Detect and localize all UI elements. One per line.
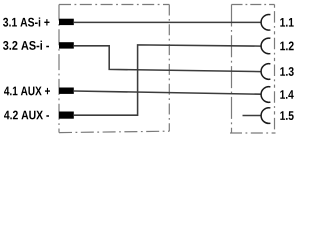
wire 4.2 AUX- to pin 1.2 (up at x=137) (74, 45, 261, 115)
connector boundary right socket: top edge (dash-dot) (232, 4, 275, 6)
wire stub to pin 1.5 (243, 115, 261, 117)
socket pin 1.2 (arc) (261, 38, 270, 54)
wire 4.1 AUX+ to pin 1.4 (74, 91, 261, 94)
device boundary left module: top edge (dash-dot) (59, 4, 169, 6)
terminal 4.2 (black block) (59, 112, 74, 119)
label 3.1 AS-i + (3, 17, 50, 26)
label 3.2 AS-i - (3, 41, 49, 50)
socket pin 1.1 (arc) (261, 14, 270, 30)
pin label 1.1 (280, 18, 293, 27)
socket pin 1.3 (arc) (261, 64, 270, 80)
pin label 1.4 (280, 90, 293, 99)
device boundary left module: right edge (dash-dot) (168, 5, 170, 132)
label 4.1 AUX + (4, 87, 50, 96)
pin label 1.3 (280, 67, 293, 76)
terminal 3.2 (black block) (59, 42, 74, 48)
label 4.2 AUX - (4, 111, 49, 120)
socket pin 1.4 (arc) (261, 87, 270, 103)
terminal 4.1 (black block) (59, 88, 74, 94)
device boundary left module: bottom edge (dash-dot) (59, 131, 169, 132)
device boundary left module: left edge (dash-dot) (58, 5, 60, 133)
wire 3.2 AS-i- to pin 1.3 (jog down at x=109) (74, 46, 261, 72)
connector boundary right socket: right edge (dash-dot) (274, 5, 276, 134)
terminal 3.1 (black block) (59, 19, 74, 25)
connector boundary right socket: bottom edge (dash-dot) (230, 132, 276, 134)
connector boundary right socket: left edge (dash-dot) (231, 5, 233, 134)
pin label 1.2 (280, 41, 293, 50)
pin label 1.5 (280, 111, 293, 120)
wire 3.1 AS-i+ to pin 1.1 (74, 21, 261, 23)
socket pin 1.5 (arc) (261, 108, 270, 124)
